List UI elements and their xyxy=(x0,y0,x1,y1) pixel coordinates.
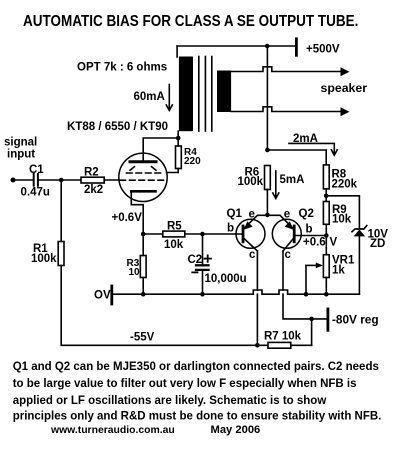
wire R8 bottom xyxy=(325,189,327,202)
VR1 wiper arrow xyxy=(306,263,323,269)
wire R4 bottom to screen xyxy=(167,169,179,173)
wire anode node: primary bottom lead xyxy=(177,131,179,138)
resistor R3 xyxy=(140,256,146,278)
svg-text:100k: 100k xyxy=(31,253,57,265)
wire C2 top xyxy=(202,234,204,265)
svg-text:c: c xyxy=(249,249,256,261)
svg-text:speaker: speaker xyxy=(321,81,368,95)
transformer T1 secondary winding xyxy=(217,71,231,113)
wire cathode node to R5 xyxy=(143,233,163,235)
node VR1 on 0V rail dot xyxy=(324,292,329,297)
wire R7 right to -80V column xyxy=(291,344,312,346)
svg-text:input: input xyxy=(7,149,35,161)
wire emitter tee right to Q2 xyxy=(267,215,293,228)
resistor R7 xyxy=(268,342,291,348)
svg-text:OV: OV xyxy=(94,290,111,302)
node emitter tee dot xyxy=(265,213,270,218)
wire Q2 collector down to -80V elbow xyxy=(283,251,312,319)
svg-text:Q1: Q1 xyxy=(227,208,243,220)
node input junction dot xyxy=(59,178,64,183)
svg-text:R7 10k: R7 10k xyxy=(264,331,302,343)
wire -80V node to terminal xyxy=(312,318,328,320)
svg-text:to be large value to filter ou: to be large value to filter out very low… xyxy=(13,378,357,390)
note paragraph xyxy=(13,361,382,423)
wire speaker top with hop over B+ column xyxy=(231,67,341,72)
wire R3 top xyxy=(142,236,144,256)
svg-text:+500V: +500V xyxy=(306,44,340,56)
svg-text:e: e xyxy=(249,209,255,221)
speaker arrowhead top xyxy=(341,67,350,76)
svg-text:OPT 7k : 6 ohms: OPT 7k : 6 ohms xyxy=(77,62,167,74)
transformer T1 core xyxy=(199,57,212,132)
svg-text:May 2006: May 2006 xyxy=(211,424,261,436)
wire primary top lead xyxy=(176,46,178,57)
wire R3 bottom xyxy=(142,278,144,295)
svg-text:b: b xyxy=(306,224,313,236)
svg-text:KT88 / 6550 / KT90: KT88 / 6550 / KT90 xyxy=(67,121,168,133)
wire VR1 wiper down to 0V rail xyxy=(305,265,307,294)
label signal input xyxy=(4,137,37,161)
svg-text:V: V xyxy=(330,237,338,249)
input terminal dot xyxy=(11,178,16,183)
node wiper on 0V rail dot xyxy=(304,292,309,297)
wire speaker bottom with hop over B+ column xyxy=(231,107,341,112)
svg-text:applied or LF oscillations are: applied or LF oscillations are likely. S… xyxy=(13,395,327,407)
+500V terminal xyxy=(295,39,298,56)
label +0.6 V xyxy=(303,237,338,249)
resistor R4 xyxy=(176,146,182,169)
svg-text:ZD: ZD xyxy=(370,238,385,250)
node anode junction dot xyxy=(176,136,181,141)
resistor R5 xyxy=(163,231,185,237)
node cathode junction dot xyxy=(141,232,146,237)
wire emitter tee left to Q1 xyxy=(244,215,268,228)
wire input to C1 xyxy=(13,179,33,181)
footer xyxy=(50,424,260,436)
node C2 on 0V rail dot xyxy=(200,292,205,297)
svg-text:Q1 and Q2 can be MJE350 or dar: Q1 and Q2 can be MJE350 or darlington co… xyxy=(13,361,379,373)
svg-text:-80V reg: -80V reg xyxy=(332,313,379,327)
wire 2mA tee to R8 xyxy=(267,150,326,165)
wire zener branch top xyxy=(326,196,359,228)
wire R1 bottom to -55V rail xyxy=(61,266,268,346)
wire zener bottom to 0V rail xyxy=(358,236,360,294)
current arrow 2mA xyxy=(289,143,337,155)
potentiometer VR1 xyxy=(323,255,329,278)
wire 0V rail with hops over Q1 Q2 collectors xyxy=(112,290,360,294)
svg-text:C2: C2 xyxy=(188,254,203,266)
node Q2 base junction dot xyxy=(324,233,329,238)
svg-text:www.turneraudio.com.au: www.turneraudio.com.au xyxy=(50,425,175,436)
svg-text:signal: signal xyxy=(4,137,37,149)
tube V1 envelope xyxy=(119,153,167,201)
wire anode to node xyxy=(143,138,178,160)
resistor R8 xyxy=(323,165,329,189)
svg-text:AUTOMATIC BIAS FOR CLASS A SE: AUTOMATIC BIAS FOR CLASS A SE OUTPUT TUB… xyxy=(23,13,358,30)
svg-text:10k: 10k xyxy=(332,214,352,226)
speaker arrowhead bottom xyxy=(341,107,350,116)
svg-text:-55V: -55V xyxy=(130,332,155,344)
svg-text:2k2: 2k2 xyxy=(84,184,103,196)
transistor Q2 xyxy=(272,219,301,251)
svg-text:10: 10 xyxy=(129,267,141,278)
node R8 bottom dot xyxy=(324,194,329,199)
tube V1 screen grid g2 xyxy=(127,172,162,174)
wire R1 column xyxy=(60,180,62,242)
wire Q1 collector down to -55V rail xyxy=(256,251,258,345)
svg-text:principles only and R&D must b: principles only and R&D must be done to … xyxy=(13,411,382,423)
node -80V junction dot xyxy=(309,317,314,322)
svg-text:1k: 1k xyxy=(332,265,345,277)
resistor R2 xyxy=(81,177,104,183)
capacitor C1 xyxy=(34,174,38,186)
C2 minus sign xyxy=(192,271,197,273)
wire R6 bottom to emitter node xyxy=(266,190,268,215)
svg-text:220k: 220k xyxy=(332,179,358,191)
svg-text:5mA: 5mA xyxy=(280,174,305,186)
wire Q2 base to R9 column xyxy=(294,235,326,237)
tube V1 cathode xyxy=(131,190,155,193)
wire -80V node down to R7 xyxy=(311,319,313,345)
svg-text:+0.6: +0.6 xyxy=(303,237,326,249)
node Q1 collector on -55V rail dot xyxy=(255,343,260,348)
current arrow 60mA xyxy=(166,85,172,111)
svg-text:e: e xyxy=(284,209,290,221)
wire R4 top xyxy=(177,140,179,146)
tube V1 beam plates xyxy=(130,167,156,171)
tube V1 anode xyxy=(130,160,156,163)
svg-text:C1: C1 xyxy=(29,164,44,176)
transformer T1 primary winding xyxy=(179,57,193,132)
wire R9 bottom to base node xyxy=(325,224,327,235)
svg-text:R5: R5 xyxy=(167,221,182,233)
svg-text:b: b xyxy=(227,223,234,235)
resistor R6 xyxy=(265,166,271,190)
svg-text:Q2: Q2 xyxy=(299,208,314,220)
wire C2 bottom xyxy=(202,270,204,294)
node 2mA tee dot xyxy=(265,148,270,153)
svg-text:R2: R2 xyxy=(84,167,99,179)
wire base node to VR1 xyxy=(325,236,327,255)
svg-text:100k: 100k xyxy=(238,176,264,188)
node R3 on 0V rail dot xyxy=(141,292,146,297)
resistor R9 xyxy=(323,202,329,225)
svg-text:220: 220 xyxy=(184,156,201,167)
node B+ junction dot xyxy=(265,44,270,49)
node Q1 base node dot xyxy=(200,232,205,237)
wire VR1 bottom to 0V rail xyxy=(325,278,327,295)
wire R5 to base node xyxy=(185,233,203,235)
svg-text:0.47u: 0.47u xyxy=(21,187,50,199)
wire cathode lead xyxy=(131,192,143,234)
capacitor C2 xyxy=(196,265,209,270)
svg-text:10,000u: 10,000u xyxy=(205,273,247,285)
wire C1 to R2 xyxy=(39,179,82,181)
wire base node to Q1 base xyxy=(203,233,244,235)
svg-text:+0.6V: +0.6V xyxy=(112,212,143,224)
resistor R1 xyxy=(58,242,64,266)
tube V1 control grid g1 xyxy=(120,179,166,181)
wire R2 to grid xyxy=(104,179,119,181)
C2 plus sign xyxy=(205,255,212,261)
zener diode ZD 10V xyxy=(352,226,367,237)
current arrow 5mA xyxy=(273,171,279,199)
svg-text:60mA: 60mA xyxy=(134,91,165,103)
svg-text:c: c xyxy=(285,249,292,261)
-80V terminal xyxy=(326,309,329,330)
wire B+ top from transformer to +500V tee xyxy=(177,45,296,47)
wire +500V column down to 2mA node xyxy=(266,46,268,150)
svg-text:10k: 10k xyxy=(164,239,184,251)
0V terminal xyxy=(110,286,113,304)
transistor Q1 xyxy=(236,219,265,251)
